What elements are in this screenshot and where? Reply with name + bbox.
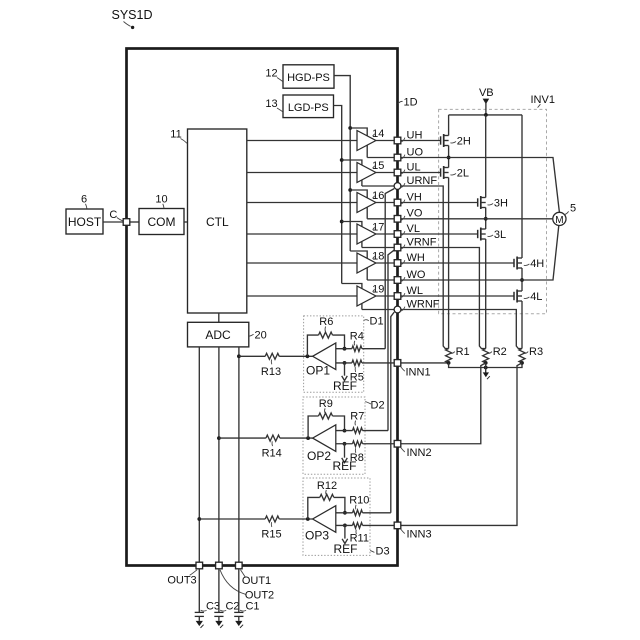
svg-text:20: 20 [255, 330, 267, 342]
buffer 17 [357, 222, 394, 245]
svg-text:VRNF: VRNF [407, 236, 437, 248]
svg-text:R12: R12 [317, 480, 337, 492]
label 12 [265, 68, 282, 82]
terminal UH [394, 137, 401, 144]
svg-text:LGD-PS: LGD-PS [288, 102, 329, 114]
svg-text:10: 10 [155, 194, 167, 206]
buffer 14 bottom tap to UO [366, 145, 368, 158]
wire CTL to buffer 17 [247, 233, 357, 235]
svg-text:C2: C2 [225, 601, 239, 613]
svg-text:HGD-PS: HGD-PS [287, 72, 330, 84]
label URNF [400, 175, 437, 188]
svg-text:5: 5 [570, 203, 576, 215]
terminal OUT3 [196, 562, 203, 569]
op-amp OP3 non-inverting input with R11 [336, 523, 394, 545]
buffer 16 tap from HGD bus [348, 188, 367, 198]
wire URNF sense line to R4 [385, 189, 394, 349]
op-amp OP2 inverting input with R7 [336, 410, 388, 433]
wire CTL to buffer 15 [247, 172, 357, 174]
buffer 14 [357, 128, 394, 151]
wire CTL to buffer 19 [247, 295, 357, 297]
wire WH gate lead [401, 262, 514, 264]
ground [483, 372, 490, 379]
svg-text:R13: R13 [261, 366, 281, 378]
svg-text:13: 13 [265, 98, 277, 110]
wire UL gate lead [401, 172, 441, 174]
svg-text:UO: UO [407, 146, 424, 158]
svg-text:C: C [109, 209, 117, 221]
label D3 [370, 546, 389, 558]
svg-text:6: 6 [81, 194, 87, 206]
OP1 REF reference [333, 363, 357, 393]
svg-text:UL: UL [407, 161, 421, 173]
wire V phase column [485, 208, 487, 230]
op-amp U2 OP2 triangle [307, 425, 336, 463]
svg-text:D2: D2 [371, 400, 385, 412]
wire VO to motor [401, 218, 553, 220]
label 11 [170, 129, 187, 144]
label VO [400, 208, 423, 221]
wire VRNF sense line to R7 [388, 250, 394, 431]
resistor R14 [262, 435, 282, 459]
terminal C [123, 219, 130, 226]
node R3 bottom [520, 361, 524, 365]
terminal INN3 [394, 522, 401, 529]
buffer 14 tap from HGD bus [348, 126, 367, 136]
terminal URNF [394, 183, 401, 190]
svg-text:OUT3: OUT3 [167, 575, 196, 587]
node W phase [520, 278, 524, 282]
svg-text:UH: UH [407, 129, 423, 141]
wire LGD-PS supply bus [334, 106, 342, 284]
svg-text:INN1: INN1 [406, 367, 431, 379]
buffer 19 bottom tap to WRNF [361, 303, 363, 310]
op-amp OP3 inverting input with R10 [336, 495, 391, 516]
label C [109, 209, 122, 221]
transistor 2L [441, 166, 469, 179]
buffer 18 tap from HGD bus [350, 251, 367, 259]
buffer 18 [357, 251, 394, 274]
svg-text:4H: 4H [530, 258, 544, 270]
wire WRNF external to R3 [401, 310, 522, 349]
svg-text:VB: VB [479, 87, 494, 99]
svg-text:M: M [555, 215, 563, 226]
wire VO internal [367, 218, 394, 220]
svg-text:OUT1: OUT1 [242, 575, 271, 587]
label INN2 [401, 447, 432, 459]
label VH [400, 191, 422, 204]
label 13 [265, 98, 282, 112]
wire R3 bottom to INN3 [401, 363, 522, 526]
op-amp OP2 feedback through R9 [308, 398, 344, 438]
svg-text:OP2: OP2 [307, 449, 331, 463]
OP2 REF reference [333, 444, 357, 473]
node R2 rail junction [484, 366, 488, 370]
op-amp OP1 feedback through R6 [307, 316, 344, 356]
transistor 4L [514, 290, 542, 303]
label UH [400, 129, 422, 142]
op-amp D2 dotted box [303, 397, 365, 474]
wire UH gate lead [401, 140, 441, 142]
wire U phase column [448, 146, 450, 168]
wire CTL to ADC [218, 313, 220, 322]
svg-text:2H: 2H [457, 135, 471, 147]
label D1 [364, 316, 384, 328]
label 20 [249, 330, 267, 342]
svg-text:REF: REF [334, 542, 358, 556]
terminal VL [394, 231, 401, 238]
label OUT2 [220, 570, 274, 602]
label 1D [398, 97, 418, 109]
svg-text:WRNF: WRNF [407, 298, 440, 310]
op-amp OP1 non-inverting input with R5 [336, 360, 394, 383]
wire WO internal [367, 279, 394, 281]
wire URNF internal [362, 185, 394, 187]
svg-text:R1: R1 [456, 346, 470, 358]
svg-text:R7: R7 [350, 410, 364, 422]
wire HOST to C [103, 221, 123, 223]
svg-text:4L: 4L [530, 291, 542, 303]
ground below C2 [215, 621, 223, 628]
wire UO internal [367, 157, 394, 159]
label VRNF [400, 236, 436, 249]
terminal INN1 [394, 360, 401, 367]
svg-text:CTL: CTL [206, 215, 229, 229]
wire COM to CTL [184, 221, 188, 223]
transistor 2H [441, 115, 471, 147]
node OP1 output [306, 354, 310, 358]
label OUT1 [241, 570, 272, 587]
op-amp OP3 output wire [197, 517, 265, 521]
svg-text:R10: R10 [349, 495, 369, 507]
op-amp D1 dotted box [304, 316, 364, 392]
wire 3L source to R2 [485, 239, 487, 349]
ground below C3 [196, 621, 204, 628]
svg-text:R9: R9 [319, 398, 333, 410]
wire VRNF internal [362, 247, 394, 249]
svg-text:WL: WL [407, 285, 424, 297]
terminal VH [394, 199, 401, 206]
transistor 4H [514, 115, 544, 270]
buffer 19 tap from LGD bus [342, 284, 362, 290]
wire R13 to OP1 [279, 355, 312, 357]
terminal VRNF [394, 244, 401, 251]
terminal WO [394, 277, 401, 284]
capacitor C3 [195, 569, 220, 621]
CTL box 11 [188, 129, 247, 313]
wire R2 to ground [485, 363, 487, 373]
svg-text:SYS1D: SYS1D [112, 8, 153, 22]
svg-text:WO: WO [407, 269, 426, 281]
op-amp U3 OP3 triangle [305, 506, 336, 543]
label VL [400, 223, 420, 236]
capacitor C1 [234, 569, 259, 621]
op-amp OP1 inverting input with R4 [336, 331, 385, 352]
terminal OUT2 [216, 562, 223, 569]
svg-text:ADC: ADC [205, 328, 231, 342]
wire VB rail [449, 114, 522, 116]
resistor R13 [261, 353, 281, 378]
terminal WRNF [394, 306, 401, 313]
wire WO to motor [401, 225, 559, 280]
resistor R2 [483, 346, 507, 363]
INV1 dashed box [439, 109, 547, 313]
label OUT3 [167, 570, 197, 587]
terminal VO [394, 216, 401, 223]
wire UO to motor [401, 158, 560, 213]
buffer 16 [357, 190, 394, 213]
buffer 15 tap from LGD bus [340, 158, 362, 166]
terminal UL [394, 169, 401, 176]
wire 2L source to R1 [448, 178, 450, 349]
label 6 [81, 194, 87, 209]
wire C to COM [130, 221, 139, 223]
wire R2 bottom to INN2 [401, 363, 486, 444]
wire CTL to buffer 18 [247, 262, 357, 264]
svg-text:R14: R14 [262, 447, 282, 459]
HOST box 6 [66, 209, 103, 234]
terminal INN2 [394, 440, 401, 447]
svg-text:VO: VO [407, 208, 423, 220]
wire ADC column OUT2 [218, 347, 220, 563]
label D2 [365, 400, 384, 412]
wire WRNF sense line to R10 [391, 312, 394, 513]
terminal WL [394, 293, 401, 300]
label WL [400, 285, 423, 298]
svg-text:OP1: OP1 [306, 364, 330, 378]
svg-text:R2: R2 [493, 346, 507, 358]
terminal WH [394, 260, 401, 267]
terminal UO [394, 154, 401, 161]
svg-text:HOST: HOST [68, 215, 102, 229]
wire INN1 to R1 bottom [401, 362, 449, 364]
wire ADC column OUT3 [198, 347, 200, 563]
transistor 3L [478, 228, 506, 241]
op-amp OP1 output wire [237, 354, 265, 358]
buffer 16 bottom tap to VO [366, 207, 368, 219]
label WO [400, 269, 426, 282]
node V phase [484, 217, 488, 221]
svg-text:INN3: INN3 [407, 529, 432, 541]
label INN1 [401, 367, 431, 379]
svg-text:R15: R15 [261, 528, 281, 540]
node U phase [447, 156, 451, 160]
svg-text:R6: R6 [319, 316, 333, 328]
svg-text:OP3: OP3 [305, 528, 329, 542]
capacitor C2 [214, 569, 239, 621]
wire shunt common rail [449, 363, 522, 368]
resistor R1 [446, 346, 470, 363]
wire VRNF external to R2 [401, 248, 486, 349]
wire HGD-PS supply bus [334, 76, 350, 251]
svg-text:1D: 1D [404, 97, 418, 109]
VB supply [479, 87, 494, 115]
op-amp OP3 feedback through R12 [308, 480, 345, 519]
label INV1 [531, 94, 555, 108]
label WRNF [400, 298, 439, 311]
svg-text:WH: WH [407, 252, 425, 264]
LGD-PS box 13 [283, 95, 334, 118]
wire R14 to OP2 [280, 437, 313, 439]
terminal OUT1 [236, 562, 243, 569]
label UO [400, 146, 423, 159]
svg-text:11: 11 [170, 129, 181, 141]
ground below C1 [235, 621, 243, 628]
svg-text:3H: 3H [494, 197, 508, 209]
svg-text:REF: REF [333, 459, 357, 473]
svg-text:C1: C1 [245, 601, 259, 613]
wire ADC column OUT1 [238, 347, 240, 563]
svg-text:COM: COM [148, 215, 176, 229]
buffer 15 bottom tap to URNF [361, 179, 363, 186]
transistor 3H [478, 115, 508, 209]
svg-text:URNF: URNF [407, 175, 438, 187]
label INN3 [401, 529, 432, 541]
motor 5 [553, 203, 576, 226]
node OP3 output [306, 517, 310, 521]
svg-text:3L: 3L [494, 229, 506, 241]
op-amp OP2 non-inverting input with R8 [336, 441, 394, 464]
wire W phase column [521, 268, 523, 291]
node OP2 output [306, 436, 310, 440]
op-amp U1 OP1 triangle [306, 343, 336, 378]
svg-text:R4: R4 [350, 331, 364, 343]
label SYS1D [112, 8, 153, 29]
svg-text:INV1: INV1 [531, 94, 555, 106]
svg-text:D3: D3 [376, 546, 390, 558]
buffer 19 [357, 284, 394, 307]
node VB-rail junction [484, 113, 488, 117]
wire 4L source to R3 [521, 301, 523, 349]
wire WRNF internal [362, 309, 394, 311]
svg-text:VL: VL [407, 223, 420, 235]
resistor R15 [261, 516, 281, 540]
node R1 bottom [447, 361, 451, 365]
HGD-PS box 12 [283, 65, 334, 88]
svg-text:REF: REF [333, 379, 357, 393]
ADC box 20 [188, 322, 249, 347]
COM box 10 [139, 209, 184, 235]
wire R15 to OP3 [279, 518, 312, 520]
wire VH gate lead [401, 202, 478, 204]
buffer 17 bottom tap to VRNF [361, 241, 363, 248]
label UL [400, 161, 420, 174]
node R2 bottom [484, 361, 488, 365]
svg-text:12: 12 [265, 68, 277, 80]
wire WL gate lead [401, 295, 514, 297]
wire URNF external to R1 [401, 186, 449, 349]
OP3 REF reference [334, 525, 358, 556]
wire CTL to buffer 16 [247, 202, 357, 204]
wire VL gate lead [401, 233, 478, 235]
buffer 15 [357, 160, 394, 183]
buffer 17 tap from LGD bus [340, 220, 362, 228]
svg-text:INN2: INN2 [407, 447, 432, 459]
label 10 [155, 194, 167, 209]
svg-text:R3: R3 [529, 346, 543, 358]
label WH [400, 252, 425, 265]
svg-text:2L: 2L [457, 167, 469, 179]
op-amp D3 dotted box [303, 478, 370, 555]
resistor R3 [519, 346, 543, 363]
svg-text:D1: D1 [370, 316, 384, 328]
buffer 18 bottom tap to WO [366, 267, 368, 280]
wire CTL to buffer 14 [247, 140, 357, 142]
IC 1D outer border [127, 49, 398, 566]
op-amp OP2 output wire [217, 436, 266, 440]
svg-text:C3: C3 [206, 601, 220, 613]
svg-text:VH: VH [407, 191, 422, 203]
